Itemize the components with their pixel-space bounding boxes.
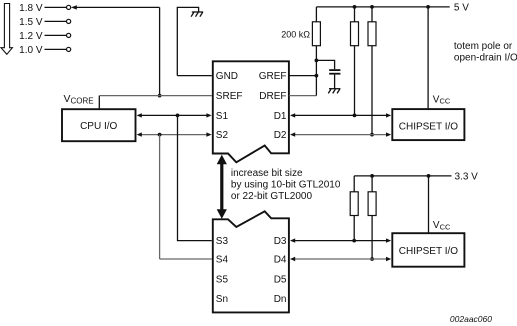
svg-text:D2: D2 xyxy=(274,130,287,141)
junction R2 to D1 xyxy=(353,114,357,118)
resistor R3 xyxy=(371,7,373,22)
wire S2 to S4 branch vertical xyxy=(159,135,161,259)
wire VCORE stub to CPU box xyxy=(98,96,100,109)
svg-text:1.8 V: 1.8 V xyxy=(19,3,43,14)
wire S1 bidirectional xyxy=(140,114,208,116)
resistor R5 xyxy=(371,176,373,192)
junction R3 on 5V xyxy=(370,5,374,9)
svg-text:1.5 V: 1.5 V xyxy=(19,17,43,28)
CHIPSET I/O box 2 xyxy=(392,233,464,267)
junction GREF xyxy=(315,74,319,78)
junction on S2 for S4 branch xyxy=(158,133,162,137)
svg-text:1.2 V: 1.2 V xyxy=(19,31,43,42)
svg-text:CPU I/O: CPU I/O xyxy=(80,121,117,132)
wire 1.8 V stub xyxy=(45,6,67,8)
voltage-select hollow arrow xyxy=(1,4,12,55)
wire vertical 1.8 V down to SREF xyxy=(159,7,161,95)
CHIPSET I/O box 1 xyxy=(392,109,464,140)
wire 1.8 V to SREF drop xyxy=(76,6,159,8)
arrowhead D4 at GTL side xyxy=(290,257,295,261)
arrowhead S1 at GTL side xyxy=(206,113,211,117)
arrowhead D2 at chipset side xyxy=(386,132,391,136)
arrowhead S1 at CPU side xyxy=(137,113,142,117)
wire VCC2 drop xyxy=(428,176,430,233)
terminal circle 1.5 V xyxy=(67,19,71,23)
op IC U1 GTL2000 top half xyxy=(213,61,289,162)
expansion double arrow xyxy=(220,162,223,212)
ground symbol at C1 xyxy=(328,89,340,94)
junction R3 to D2 xyxy=(370,133,374,137)
svg-text:open-drain I/O: open-drain I/O xyxy=(454,53,517,64)
svg-text:002aac060: 002aac060 xyxy=(450,314,492,324)
svg-text:D1: D1 xyxy=(274,111,287,122)
wire 1.5 V stub xyxy=(45,20,67,22)
junction R5 to D4 xyxy=(370,257,374,261)
net 3.3 V rail xyxy=(354,175,451,177)
wire GND net up-and-over xyxy=(177,7,198,75)
wire R1 bottom to DREF xyxy=(315,46,317,96)
resistor R1 200 kOhm xyxy=(315,7,317,22)
arrowhead into 1.8 V terminal xyxy=(71,5,77,9)
junction cap branch xyxy=(315,59,319,63)
junction VCC2 on 3.3V xyxy=(427,174,431,178)
svg-text:Dn: Dn xyxy=(274,294,287,305)
arrowhead S2 at CPU side xyxy=(137,132,142,136)
svg-text:SREF: SREF xyxy=(216,91,243,102)
wire D4 bidirectional xyxy=(292,258,388,260)
wire D3 bidirectional xyxy=(292,240,388,242)
wire DREF pin xyxy=(289,95,317,97)
arrowhead D3 at chipset side xyxy=(386,238,391,242)
terminal circle 1.2 V xyxy=(67,33,71,37)
wire S1 to S3 branch xyxy=(178,115,212,240)
svg-text:D4: D4 xyxy=(274,255,287,266)
wire S4 horizontal xyxy=(160,258,212,260)
svg-text:totem pole or: totem pole or xyxy=(454,41,513,52)
arrowhead D2 at GTL side xyxy=(290,132,295,136)
wire GND pin xyxy=(177,75,212,77)
svg-text:S4: S4 xyxy=(216,255,229,266)
svg-text:CHIPSET I/O: CHIPSET I/O xyxy=(399,246,458,257)
svg-text:VCC: VCC xyxy=(433,220,451,231)
wire VCC1 drop xyxy=(427,7,429,109)
wire SREF line xyxy=(99,95,212,97)
resistor R4 xyxy=(353,176,355,192)
terminal circle 1.0 V xyxy=(67,47,71,51)
svg-text:S1: S1 xyxy=(216,111,229,122)
junction R4 to D3 xyxy=(352,239,356,243)
svg-text:1.0 V: 1.0 V xyxy=(19,45,43,56)
resistor R2 xyxy=(354,7,356,22)
capacitor C1 xyxy=(316,60,334,69)
svg-text:or 22-bit GTL2000: or 22-bit GTL2000 xyxy=(231,191,313,202)
svg-text:GND: GND xyxy=(216,71,238,82)
wire 1.0 V stub xyxy=(45,48,67,50)
svg-text:increase bit size: increase bit size xyxy=(231,168,303,179)
svg-text:CHIPSET I/O: CHIPSET I/O xyxy=(399,121,458,132)
ground symbol at GND net xyxy=(191,12,203,17)
arrowhead D4 at chipset side xyxy=(386,257,391,261)
junction R5 on 3.3V xyxy=(370,174,374,178)
junction on S1 for S3 branch xyxy=(176,114,180,118)
junction R2 on 5V xyxy=(353,5,357,9)
svg-text:D3: D3 xyxy=(274,236,287,247)
net 5 V rail xyxy=(316,6,449,8)
svg-text:S3: S3 xyxy=(216,236,229,247)
svg-text:GREF: GREF xyxy=(259,71,287,82)
svg-text:3.3 V: 3.3 V xyxy=(455,171,479,182)
op IC U1 GTL2000 bottom half xyxy=(213,211,289,312)
wire GREF pin xyxy=(289,75,317,77)
svg-text:DREF: DREF xyxy=(259,91,286,102)
wire 1.2 V stub xyxy=(45,34,67,36)
svg-text:S5: S5 xyxy=(216,274,229,285)
svg-text:S2: S2 xyxy=(216,130,229,141)
svg-text:200 kΩ: 200 kΩ xyxy=(281,29,310,39)
svg-text:VCC: VCC xyxy=(433,94,451,105)
CPU I/O box xyxy=(62,109,136,141)
arrowhead D3 at GTL side xyxy=(290,238,295,242)
wire D2 bidirectional xyxy=(292,134,388,136)
svg-text:Sn: Sn xyxy=(216,294,228,305)
svg-text:by using 10-bit GTL2010: by using 10-bit GTL2010 xyxy=(231,179,341,190)
junction on SREF line xyxy=(158,94,162,98)
arrowhead D1 at chipset side xyxy=(386,113,391,117)
svg-text:D5: D5 xyxy=(274,274,287,285)
wire S2 bidirectional xyxy=(140,134,208,136)
wire D1 bidirectional xyxy=(292,114,388,116)
terminal circle 1.8 V xyxy=(67,5,71,9)
arrowhead D1 at GTL side xyxy=(290,113,295,117)
svg-text:5 V: 5 V xyxy=(454,2,469,13)
arrowhead S2 at GTL side xyxy=(206,132,211,136)
junction VCC1 on 5V xyxy=(426,5,430,9)
